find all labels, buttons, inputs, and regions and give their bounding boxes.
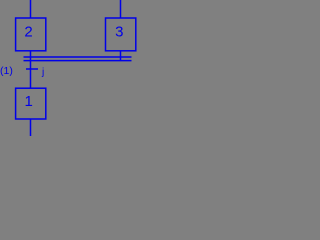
GRAFCET / SFC diagram	[0, 0, 140, 136]
wire into step 3 from top	[120, 0, 122, 18]
svg-text:j: j	[41, 67, 44, 78]
wire below step 1	[30, 119, 32, 136]
parallel sync double bar (bottom line)	[24, 60, 132, 62]
svg-text:3: 3	[115, 24, 123, 41]
svg-text:(1): (1)	[0, 65, 13, 77]
wire into step 2 from top	[30, 0, 32, 18]
background	[0, 0, 140, 136]
wire step 3 to sync bar	[120, 51, 122, 61]
step box 3	[106, 18, 136, 51]
wire step 2 to step 1	[30, 51, 32, 88]
step box 1	[16, 88, 46, 119]
svg-text:2: 2	[24, 24, 32, 41]
transition (1) tick	[26, 68, 38, 70]
parallel sync double bar (top line)	[24, 56, 132, 58]
svg-text:1: 1	[25, 93, 33, 110]
step box 2	[16, 18, 46, 51]
